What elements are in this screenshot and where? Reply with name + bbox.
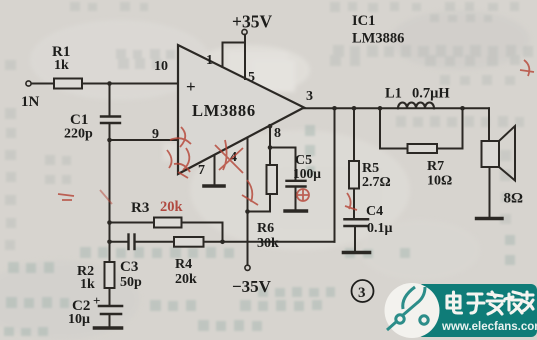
wire R2 to C2 bbox=[109, 288, 111, 306]
node A junction bbox=[107, 81, 112, 86]
wire feedback horizontal bbox=[223, 241, 335, 243]
node output feedback tap bbox=[332, 106, 337, 111]
node R3 left rail bbox=[107, 220, 112, 225]
wire feedback rail down bbox=[109, 140, 111, 262]
svg-text:30k: 30k bbox=[257, 236, 279, 251]
node R7 branch left bbox=[378, 106, 383, 111]
电 bbox=[447, 292, 462, 313]
wire C3 row left bbox=[110, 241, 129, 243]
wire node B to pin9 bbox=[110, 139, 179, 141]
pin 4 wire to -35V bbox=[247, 138, 249, 266]
wire R6 bottom bbox=[269, 194, 271, 212]
wire feedback vertical bbox=[334, 108, 336, 242]
red X scribble mid triangle bbox=[215, 140, 243, 173]
svg-text:LM3886: LM3886 bbox=[192, 101, 256, 120]
watermark bbox=[385, 283, 537, 338]
wire R3 right + drop bbox=[182, 223, 223, 242]
resistor R7 bbox=[408, 144, 438, 153]
node rail C3 bbox=[107, 240, 112, 245]
terminal -35V bbox=[245, 265, 250, 270]
inductor L1 bbox=[398, 103, 434, 109]
子 bbox=[468, 294, 484, 313]
烧 bbox=[505, 292, 522, 313]
wire node A to pin10 bbox=[110, 83, 179, 85]
red circled plus near C5 bbox=[297, 189, 309, 201]
svg-text:10: 10 bbox=[154, 59, 168, 74]
red scribble near pin9 bbox=[167, 127, 191, 168]
faint bleed-through text blocks (decorative) bbox=[5, 2, 533, 250]
发 bbox=[487, 292, 504, 314]
wire mute row bbox=[248, 211, 271, 213]
svg-text:LM3886: LM3886 bbox=[352, 31, 404, 47]
svg-text:1: 1 bbox=[206, 53, 213, 68]
resistor R4 bbox=[174, 237, 204, 247]
capacitor C2 electrolytic bbox=[99, 305, 122, 308]
svg-text:8Ω: 8Ω bbox=[504, 191, 524, 207]
watermark logo circle bbox=[385, 283, 440, 338]
svg-text:0.1μ: 0.1μ bbox=[367, 221, 393, 236]
svg-text:C4: C4 bbox=[366, 204, 383, 219]
watermark chinese text strokes bbox=[447, 292, 533, 314]
svg-text:+: + bbox=[93, 293, 100, 308]
speaker bbox=[482, 141, 500, 167]
capacitor C1 bbox=[109, 84, 111, 117]
wire output pin3 bbox=[304, 107, 489, 109]
ground pin7 bbox=[204, 184, 224, 188]
capacitor C5 bbox=[287, 180, 306, 182]
svg-text:20k: 20k bbox=[160, 199, 184, 215]
svg-text:20k: 20k bbox=[175, 272, 197, 287]
terminal +35V bbox=[242, 29, 247, 34]
capacitor C3 bbox=[127, 235, 129, 250]
op-amp U1 triangle bbox=[178, 45, 304, 174]
svg-text:3: 3 bbox=[306, 89, 313, 104]
red blob right edge bbox=[520, 60, 534, 76]
wire R4 right bbox=[204, 241, 223, 243]
ground C5 bbox=[285, 209, 307, 212]
svg-text:10μ: 10μ bbox=[68, 312, 90, 327]
wire R1 to node A bbox=[82, 83, 110, 85]
wire input to R1 bbox=[32, 83, 55, 85]
input terminal 1N bbox=[26, 81, 31, 86]
node R7 branch right bbox=[460, 106, 465, 111]
svg-text:C3: C3 bbox=[120, 259, 138, 275]
svg-text:R6: R6 bbox=[257, 221, 274, 236]
svg-text:1k: 1k bbox=[80, 277, 95, 292]
wire C3 to R4 bbox=[135, 241, 174, 243]
node pin8 edge bbox=[268, 124, 273, 129]
wire R3 row left bbox=[110, 222, 155, 224]
svg-text:IC1: IC1 bbox=[352, 13, 375, 29]
node feedback R3R4 bbox=[220, 240, 225, 245]
svg-text:R3: R3 bbox=[131, 200, 149, 216]
svg-text:+: + bbox=[186, 77, 196, 96]
svg-text:R7: R7 bbox=[427, 159, 444, 174]
red overprint marks bbox=[58, 60, 534, 215]
resistor R1 bbox=[54, 79, 82, 89]
友 bbox=[522, 292, 533, 311]
svg-text:10Ω: 10Ω bbox=[427, 174, 452, 189]
svg-text:3: 3 bbox=[358, 285, 366, 301]
pin 8 wire bbox=[269, 126, 271, 165]
wire C5 branch bbox=[270, 148, 296, 181]
svg-text:50p: 50p bbox=[120, 275, 142, 290]
svg-text:220p: 220p bbox=[64, 127, 93, 142]
resistor R6 bbox=[267, 165, 278, 194]
ground C4 bbox=[344, 251, 370, 255]
svg-text:8: 8 bbox=[274, 126, 281, 141]
svg-text:−35V: −35V bbox=[232, 277, 272, 296]
red mark near R5 bbox=[345, 193, 357, 210]
svg-text:9: 9 bbox=[152, 127, 159, 142]
resistor R2 bbox=[105, 262, 115, 288]
ground C2 bbox=[95, 326, 122, 330]
resistor R5 bbox=[353, 108, 355, 161]
svg-text:1N: 1N bbox=[21, 94, 40, 110]
svg-text:5: 5 bbox=[248, 70, 255, 85]
svg-text:0.7μH: 0.7μH bbox=[412, 86, 450, 102]
wire R7 loop bbox=[380, 108, 408, 148]
red mark near C1 rail bbox=[100, 190, 112, 204]
svg-text:R5: R5 bbox=[362, 161, 379, 176]
svg-text:1k: 1k bbox=[54, 58, 69, 73]
circled figure number 3 bbox=[352, 280, 374, 302]
wire output corner to speaker bbox=[488, 108, 490, 141]
svg-text:2.7Ω: 2.7Ω bbox=[362, 175, 391, 190]
pin 7 wire bbox=[214, 155, 216, 185]
svg-text:7: 7 bbox=[198, 163, 205, 178]
svg-text:www.elecfans.com: www.elecfans.com bbox=[441, 321, 537, 333]
ground speaker bbox=[477, 217, 503, 220]
resistor R3 bbox=[154, 218, 182, 228]
node R5 tap bbox=[352, 106, 357, 111]
pin 5 wire to +35V terminal bbox=[244, 35, 246, 80]
pin 1 wire bbox=[223, 43, 246, 68]
node B junction bbox=[107, 138, 112, 143]
svg-text:+35V: +35V bbox=[232, 12, 272, 32]
red mark left of R3 bbox=[58, 194, 74, 200]
capacitor C4 bbox=[345, 218, 369, 221]
svg-text:R4: R4 bbox=[175, 257, 192, 272]
node pin8 C5 branch bbox=[268, 145, 273, 150]
svg-text:100μ: 100μ bbox=[293, 166, 321, 181]
watermark teal box bbox=[417, 284, 537, 337]
svg-text:L1: L1 bbox=[385, 86, 402, 102]
node pin4 mute bbox=[245, 209, 250, 214]
